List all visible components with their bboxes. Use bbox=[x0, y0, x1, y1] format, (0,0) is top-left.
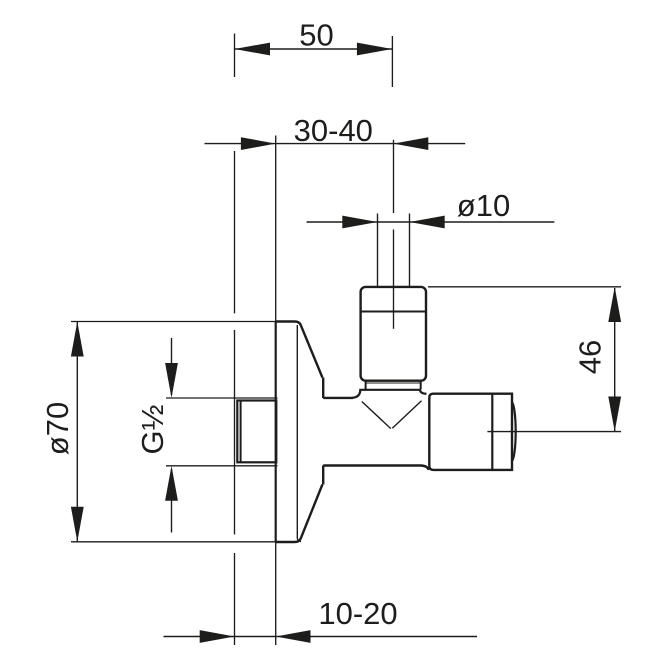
svg-text:G½: G½ bbox=[135, 404, 170, 454]
svg-text:ø10: ø10 bbox=[457, 188, 510, 223]
svg-text:30-40: 30-40 bbox=[294, 113, 373, 148]
svg-text:46: 46 bbox=[573, 340, 608, 374]
svg-text:10-20: 10-20 bbox=[318, 596, 397, 631]
svg-text:50: 50 bbox=[299, 18, 333, 53]
svg-text:ø70: ø70 bbox=[40, 402, 75, 455]
